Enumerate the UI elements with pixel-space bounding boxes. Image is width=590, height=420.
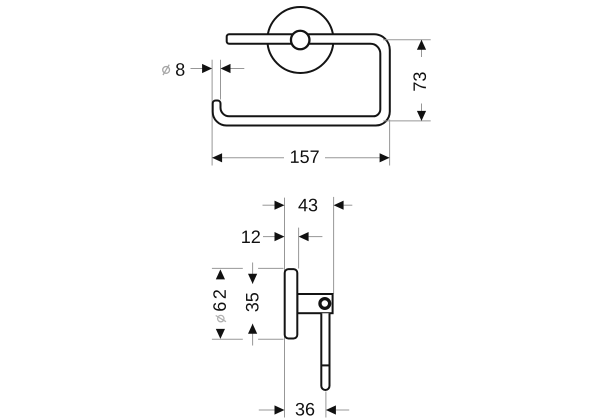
dim diameter 8 arrow right <box>221 64 231 73</box>
dim diameter 8 leader right <box>230 68 244 70</box>
dim 43 arrow right <box>334 201 344 210</box>
label 35 rotated <box>246 293 259 312</box>
pivot ring <box>320 299 330 309</box>
dim 36 arrow left <box>275 405 285 414</box>
tube joint line <box>321 364 329 366</box>
dim 35 arrow top <box>248 274 257 284</box>
bracket arm <box>297 294 332 313</box>
dim 35 line top tail <box>252 263 254 284</box>
label 62 rotated <box>213 290 226 311</box>
extension line frame right <box>389 120 391 166</box>
label 43 <box>298 199 317 212</box>
dim 36 tail right <box>336 409 349 411</box>
dim 43 arrow left <box>275 201 285 210</box>
dim 35 line bottom tail <box>252 324 254 346</box>
rosette right extension line <box>298 228 300 269</box>
label 36 <box>296 403 315 416</box>
dim diameter 62 ext top right part <box>258 267 283 269</box>
label 12 <box>242 230 260 243</box>
dim 12 arrow left <box>275 232 285 241</box>
tube centre extension line <box>325 392 327 418</box>
dim diameter 62 ext bottom right part <box>258 338 283 340</box>
dim 73 leader bottom <box>383 120 430 122</box>
label 157 <box>291 151 319 164</box>
dim 12 tail right <box>309 236 323 238</box>
dim 73 line top stub <box>421 40 423 57</box>
dim 73 arrow bottom <box>417 111 426 121</box>
holder tube outline (bar, right bend, bottom run, left hook) <box>213 34 390 125</box>
centre hub circle <box>291 31 310 50</box>
dim diameter 8 leader left <box>191 68 204 70</box>
extension line hook left <box>211 60 213 166</box>
label diameter symbol rotated <box>216 315 226 321</box>
arm outer extension line <box>333 197 335 294</box>
dim 157 arrow right <box>380 153 390 162</box>
dim 157 line left segment <box>212 157 284 159</box>
extension line hook right <box>220 60 222 100</box>
wall plane extension line <box>284 198 286 418</box>
dim 35 arrow bottom <box>248 324 257 334</box>
dim diameter 62 arrow top <box>216 269 225 279</box>
dim 12 arrow right <box>299 232 309 241</box>
dim 36 tail left <box>259 409 275 411</box>
dim diameter 8 arrow left <box>202 64 212 73</box>
wall rosette circle <box>267 7 333 73</box>
dim 43 tail right <box>344 204 353 206</box>
dim 73 arrow top <box>417 40 426 50</box>
label diameter symbol front <box>163 65 170 75</box>
label 73 rotated <box>413 72 426 90</box>
dim 36 arrow right <box>326 405 336 414</box>
dim 12 tail left <box>263 236 275 238</box>
tube end (hanging) <box>321 313 329 390</box>
dim 157 arrow left <box>212 153 222 162</box>
wall plate side profile <box>285 269 298 338</box>
dim 157 line right segment <box>325 157 390 159</box>
dim 73 line bottom stub <box>421 104 423 121</box>
dim 73 leader top <box>383 39 431 41</box>
dim diameter 62 arrow bottom <box>216 329 225 339</box>
label 8 <box>176 63 184 76</box>
dim diameter 62 ext bottom left part <box>212 338 243 340</box>
dim 43 tail left <box>263 204 275 206</box>
dim diameter 62 ext top left part <box>212 267 243 269</box>
